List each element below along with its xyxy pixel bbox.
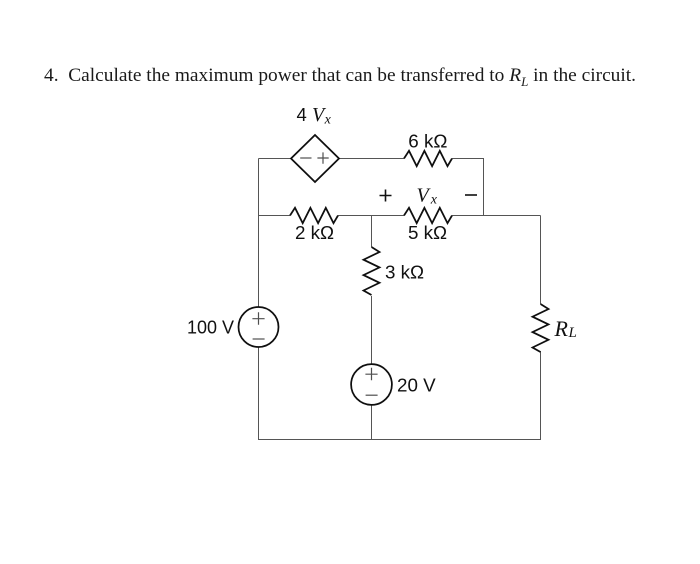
wire top-left horizontal (259, 158, 292, 160)
minus sign inside diamond (300, 157, 311, 159)
svg-text:4 Vx: 4 Vx (297, 104, 332, 128)
resistor RL zigzag vertical (533, 304, 549, 352)
wire diamond to 6k resistor (339, 158, 404, 160)
wire 3k resistor to 20V source (371, 296, 373, 364)
wire left vertical upper (258, 159, 260, 308)
resistor 6k zigzag (404, 151, 452, 166)
svg-text:Vx: Vx (417, 185, 438, 208)
svg-text:RL: RL (554, 316, 577, 341)
wire right vertical upper (540, 216, 542, 305)
wire right vertical lower (540, 351, 542, 440)
minus sign label right of Vx (465, 194, 477, 196)
source 100V circle (239, 307, 279, 347)
resistor 3k zigzag vertical (364, 247, 380, 295)
source 20V circle (351, 364, 392, 405)
wire middle row right (452, 215, 541, 217)
wire bottom horizontal (259, 439, 541, 441)
svg-text:100 V: 100 V (187, 318, 234, 338)
svg-text:2 kΩ: 2 kΩ (295, 222, 334, 243)
wire 6k to top-right corner and down (452, 159, 484, 216)
wire 3k branch top (371, 216, 373, 248)
minus sign inside 100V source (253, 338, 265, 340)
plus sign inside 20V source (365, 368, 377, 380)
dependent source diamond (291, 135, 339, 182)
plus sign inside 100V source (252, 312, 264, 324)
svg-text:20 V: 20 V (397, 375, 436, 396)
plus sign inside diamond (317, 152, 328, 163)
svg-text:5 kΩ: 5 kΩ (408, 222, 447, 243)
wire 20V source to bottom (371, 405, 373, 440)
wire left vertical lower (258, 347, 260, 440)
problem statement text (44, 65, 636, 90)
wire middle row center (338, 215, 404, 217)
svg-text:3 kΩ: 3 kΩ (385, 262, 424, 283)
resistor 5k zigzag (404, 208, 452, 223)
plus sign label left of Vx (380, 190, 392, 202)
minus sign inside 20V source (366, 394, 378, 396)
wire middle row left (259, 215, 291, 217)
svg-text:6 kΩ: 6 kΩ (408, 131, 447, 152)
resistor 2k zigzag (290, 208, 338, 223)
